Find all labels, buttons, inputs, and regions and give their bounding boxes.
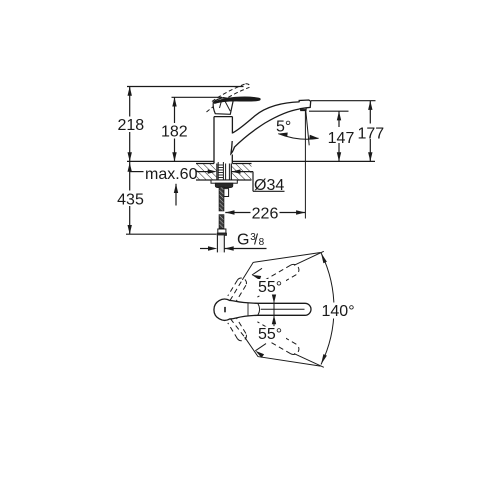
140 deg arc — [321, 253, 334, 365]
svg-text:55°: 55° — [258, 326, 282, 343]
crimp nut — [217, 233, 226, 235]
svg-text:G: G — [237, 232, 249, 249]
dashed spout position A top — [254, 264, 299, 297]
svg-text:147: 147 — [328, 130, 355, 147]
lever raised (dashed) — [207, 84, 250, 112]
top view body + spout outline (teardrop + capsule) — [214, 299, 311, 320]
dimension line 435 — [129, 161, 131, 234]
svg-text:177: 177 — [357, 126, 384, 143]
max.60 / Ø34 leader line — [130, 171, 144, 173]
extension line 147 — [309, 110, 349, 112]
dimension line 226 — [225, 212, 305, 214]
arrow 182 top — [172, 97, 176, 106]
dashed spout position A bottom — [254, 322, 299, 355]
top view texts — [256, 279, 356, 343]
svg-text:140°: 140° — [322, 303, 355, 320]
arrow at capsule bottom edge — [272, 315, 276, 324]
55 deg dimension verticals — [252, 268, 274, 351]
tail top side arrow — [252, 268, 262, 275]
washer below deck — [211, 180, 237, 183]
arrow 435 bottom — [128, 225, 132, 234]
arrow 177 top — [368, 101, 372, 110]
swivel boundary ray top (bent) — [230, 251, 334, 367]
dimension texts (white bg) — [117, 117, 386, 249]
arrow 147 top — [337, 111, 341, 120]
dimension line 177 — [369, 101, 371, 162]
neck tick — [247, 303, 249, 316]
swivel boundary ray bottom — [245, 337, 321, 366]
tail bottom side arrow — [255, 344, 266, 351]
arrow 5deg right — [309, 135, 318, 139]
extension line hose end (435) — [126, 233, 217, 235]
leader from dashed A tip to arc top — [294, 251, 324, 265]
arrowheads — [128, 87, 373, 251]
faucet body — [214, 100, 311, 164]
center tick in body — [224, 307, 226, 312]
extension line 177 — [311, 100, 376, 102]
stream line tilted 5 deg — [306, 111, 309, 146]
spout center line — [261, 308, 305, 310]
arrow 226 right — [296, 210, 305, 214]
svg-text:max.60: max.60 — [145, 166, 198, 183]
svg-text:Ø34: Ø34 — [254, 177, 284, 194]
arrow 226 left — [225, 210, 234, 214]
aerator dark band — [301, 109, 306, 111]
mounting hole edges — [216, 164, 218, 181]
arrow 218 top — [128, 87, 132, 96]
arrow arc top — [321, 253, 327, 263]
spout outer curve — [232, 102, 299, 133]
water stream line (vertical) — [304, 111, 306, 219]
threaded shank in hole — [218, 162, 229, 180]
arrow 147 bottom — [337, 152, 341, 161]
dimension line 182 — [174, 97, 176, 161]
G3/8 tube end — [217, 235, 224, 252]
mounting nut — [215, 183, 233, 187]
arrow 55 bottom side — [255, 351, 264, 358]
dashed spout position B top (55 deg) — [228, 278, 247, 301]
svg-text:218: 218 — [117, 117, 144, 134]
svg-text:55°: 55° — [258, 279, 282, 296]
svg-text:8: 8 — [259, 237, 265, 248]
neck cap arc — [258, 303, 260, 315]
dimension line 218 — [129, 87, 131, 162]
arrow hole left — [208, 169, 217, 173]
svg-text:226: 226 — [252, 206, 279, 223]
leader from dashed A tip to arc bottom — [294, 354, 324, 368]
svg-text:182: 182 — [161, 124, 188, 141]
arrow 218 bottom — [128, 152, 132, 161]
arrow 182 bottom — [172, 152, 176, 161]
spout inner curve — [234, 109, 299, 147]
arrow 55 top side — [252, 275, 261, 280]
arrow max60 up — [174, 184, 178, 193]
dashed spout position B bottom — [228, 318, 247, 341]
arrow 5deg left — [278, 133, 287, 137]
extension line top (max height, lever raised) — [127, 86, 244, 88]
lever knob front face — [213, 98, 233, 115]
dimension line 147 — [338, 111, 340, 161]
arrow hole right — [231, 169, 240, 173]
arrow 177 bottom — [368, 152, 372, 161]
G 3/8 leader/underline — [200, 248, 208, 250]
5 deg arc — [278, 134, 318, 140]
deck top extension line — [127, 160, 214, 162]
arrow 435 top — [128, 163, 132, 172]
lever handle blade (solid, rest position) — [214, 97, 261, 104]
extension line lever rest height — [172, 96, 223, 98]
spout tip / aerator — [299, 100, 311, 109]
max.60 vertical arrow line — [175, 184, 177, 206]
ferrule — [218, 229, 226, 233]
svg-text:5°: 5° — [276, 119, 291, 136]
svg-text:435: 435 — [117, 192, 144, 209]
arrow at capsule top edge — [272, 294, 276, 303]
hose bracket tab — [224, 189, 229, 197]
arrow G left — [208, 246, 217, 250]
spout root beak — [231, 141, 235, 154]
arrow G right — [225, 246, 234, 250]
top view arrowheads — [252, 253, 327, 365]
arrow arc bottom — [321, 354, 327, 364]
